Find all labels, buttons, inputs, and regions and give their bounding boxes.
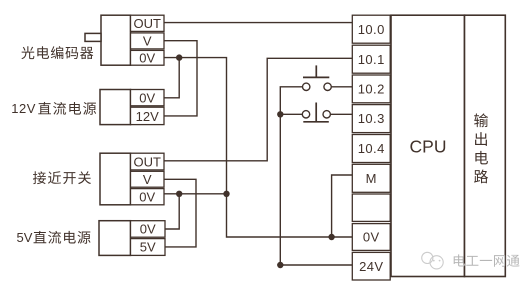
node: 0V rail junction: [223, 191, 229, 197]
CPU terminal M: [352, 164, 390, 192]
CPU terminal 0V: [352, 224, 390, 251]
wire: encoder V to 12V supply 12V: [164, 41, 197, 116]
proximity terminal V: [131, 171, 165, 187]
wire: SB2 right lead to 10.3: [330, 113, 352, 115]
node: proximity 0V junction: [176, 191, 182, 197]
svg-text:24V: 24V: [359, 259, 383, 274]
encoder shaft tab: [85, 33, 101, 41]
svg-text:10.2: 10.2: [358, 82, 385, 97]
svg-text:V: V: [143, 34, 152, 49]
wire: M to 0V rail: [332, 175, 353, 237]
5V DC supply body: [99, 221, 131, 256]
12V supply terminal 12V: [131, 107, 165, 124]
svg-text:OUT: OUT: [134, 16, 162, 31]
label 直流电源(5V): [34, 231, 91, 244]
proximity switch body: [100, 153, 131, 205]
svg-text:10.3: 10.3: [358, 111, 385, 126]
node: button rail top junction SB2: [277, 111, 283, 117]
svg-text:12V: 12V: [11, 101, 36, 116]
label 接近开关: [33, 171, 91, 184]
5V supply terminal 0V: [131, 221, 166, 238]
svg-text:0V: 0V: [139, 50, 155, 65]
wire: encoder 0V rail to CPU 0V: [164, 58, 352, 237]
wire: proximity V to 5V supply 5V: [164, 179, 196, 247]
node: button rail bottom junction 24V: [277, 262, 283, 268]
node: M junction on 0V wire: [328, 234, 334, 240]
wire: encoder OUT to 10.0: [164, 22, 352, 24]
svg-text:0V: 0V: [139, 190, 155, 205]
svg-text:5V: 5V: [140, 240, 156, 255]
push button SB1: [303, 65, 332, 90]
push button SB2: [302, 103, 330, 122]
svg-text:0V: 0V: [139, 91, 155, 106]
svg-text:10.4: 10.4: [358, 141, 385, 156]
label 光电编码器: [21, 46, 93, 59]
CPU terminal 10.1: [352, 45, 390, 73]
wire: SB2 left lead: [280, 113, 302, 115]
CPU terminal 10.0: [352, 15, 390, 43]
output circuit box: [465, 15, 506, 276]
svg-text:V: V: [143, 172, 152, 187]
wire: junction down to 12V supply 0V: [164, 58, 179, 98]
watermark text 电工一网通: [454, 254, 520, 266]
watermark logo icon: [422, 252, 444, 269]
svg-text:OUT: OUT: [134, 154, 162, 169]
CPU box U1: [391, 15, 465, 276]
label 输出电路: [474, 113, 488, 183]
svg-text:12V: 12V: [136, 109, 159, 124]
svg-text:10.1: 10.1: [358, 52, 385, 67]
CPU terminal 10.2: [352, 75, 390, 103]
svg-text:CPU: CPU: [410, 137, 447, 157]
12V DC supply body: [100, 90, 131, 125]
label 直流电源: [38, 102, 96, 115]
encoder terminal V: [131, 33, 165, 49]
svg-text:M: M: [366, 171, 377, 186]
5V supply terminal 5V: [131, 239, 166, 256]
svg-text:0V: 0V: [140, 222, 156, 237]
proximity terminal OUT: [131, 153, 165, 170]
proximity terminal 0V: [131, 189, 165, 205]
svg-text:5V: 5V: [17, 230, 33, 245]
wire: junction down to 5V supply 0V: [165, 194, 179, 229]
svg-text:0V: 0V: [363, 230, 380, 245]
photoelectric encoder body: [101, 15, 131, 65]
wire: button common rail from 24V: [280, 87, 352, 265]
CPU terminal 10.4: [352, 135, 390, 163]
svg-text:10.0: 10.0: [358, 22, 385, 37]
12V supply terminal 0V: [131, 90, 165, 106]
CPU terminal 10.3: [352, 105, 390, 133]
wire: proximity 0V to 0V rail: [164, 193, 227, 195]
CPU terminal blank: [352, 194, 390, 221]
wire: SB1 right lead to 10.2: [331, 86, 352, 88]
node: encoder 0V junction: [176, 54, 182, 60]
encoder terminal OUT: [131, 15, 165, 31]
wire: proximity OUT up to 10.1: [164, 58, 352, 161]
CPU terminal 24V: [352, 252, 390, 280]
encoder terminal 0V: [131, 50, 165, 65]
